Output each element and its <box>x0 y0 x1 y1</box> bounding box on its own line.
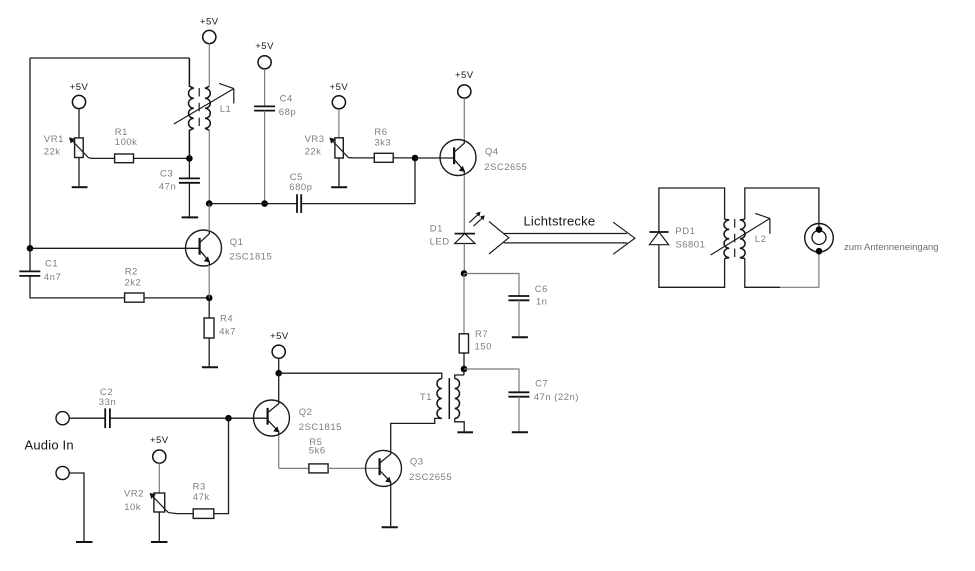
inductor L2 <box>711 213 770 258</box>
capacitor C7 <box>508 392 529 396</box>
svg-text:+5V: +5V <box>255 41 274 52</box>
power +5V VR3 <box>330 82 349 109</box>
svg-text:4n7: 4n7 <box>44 272 61 283</box>
svg-text:T1: T1 <box>420 392 432 403</box>
wire C1 to R2 <box>30 276 125 298</box>
svg-text:zum Antenneneingang: zum Antenneneingang <box>844 242 939 253</box>
wire node to C3 <box>188 158 190 178</box>
power +5V L1 <box>200 17 219 44</box>
ground VR3 <box>331 186 347 188</box>
node G LED bottom node <box>461 270 468 277</box>
transistor Q4 <box>440 140 476 176</box>
resistor R4 <box>204 318 214 338</box>
resistor R5 <box>309 464 328 473</box>
wire L1 to collector node <box>208 130 210 203</box>
node I Q2 collector node <box>275 370 282 377</box>
ground VR2 <box>151 541 168 543</box>
resistor R2 <box>125 293 144 302</box>
wire R5 to Q3 base <box>328 467 380 469</box>
resistor R7 <box>459 334 468 353</box>
svg-text:S6801: S6801 <box>675 240 705 251</box>
wire base node to Q2 <box>229 417 268 419</box>
potentiometer VR3 <box>329 138 352 159</box>
wire LED to C6 node <box>463 244 465 274</box>
wire audio lower to ground <box>69 473 84 541</box>
svg-text:+5V: +5V <box>455 70 474 81</box>
transistor Q2 <box>254 400 290 436</box>
wire VR1 to ground <box>78 158 80 187</box>
wire +5V to Q4 collector <box>463 98 465 141</box>
resistor R3 <box>193 509 214 519</box>
svg-text:PD1: PD1 <box>675 226 695 237</box>
wire Q1 emitter <box>208 265 210 298</box>
svg-text:47n (22n): 47n (22n) <box>534 392 579 403</box>
svg-text:VR2: VR2 <box>124 488 144 499</box>
svg-text:100k: 100k <box>115 137 138 148</box>
svg-text:Q4: Q4 <box>485 147 499 158</box>
capacitor C5 <box>297 194 301 213</box>
node B Q1 emitter node <box>206 295 213 302</box>
connector audio lower <box>56 466 69 479</box>
svg-text:68p: 68p <box>279 107 296 118</box>
svg-text:22k: 22k <box>44 147 61 158</box>
wire +5V to L1 <box>208 44 210 87</box>
svg-text:R6: R6 <box>374 127 387 138</box>
power +5V Q4 <box>455 70 474 98</box>
wire C3 to ground <box>188 183 190 217</box>
svg-text:LED: LED <box>430 236 450 247</box>
svg-text:D1: D1 <box>430 224 443 235</box>
wire T1 secondary top <box>463 369 465 375</box>
photodiode loop rectangle <box>659 188 725 287</box>
wire node to C1 <box>29 248 31 271</box>
node A Q1 base node <box>27 245 34 252</box>
wire node to R7 <box>463 274 465 334</box>
connector audio upper <box>56 412 69 425</box>
resistor R1 <box>115 154 134 163</box>
wire feedback loop left <box>29 58 31 248</box>
lichtstrecke arrow <box>489 214 635 255</box>
svg-text:2k2: 2k2 <box>125 277 142 288</box>
wire Q4 emitter to LED <box>463 175 465 234</box>
svg-text:+5V: +5V <box>70 82 89 93</box>
wire R4 to ground <box>208 338 210 366</box>
wire C2 to Q2 base node <box>110 417 229 419</box>
wire Q2 emitter to R5 <box>279 435 309 468</box>
svg-text:R4: R4 <box>220 314 233 325</box>
wire emitter node to R4 <box>208 298 210 318</box>
wire Q1 collector <box>208 204 210 231</box>
wire VR3 to ground <box>338 158 340 186</box>
svg-text:VR1: VR1 <box>44 134 64 145</box>
wire VR2 to ground <box>158 512 160 541</box>
svg-text:150: 150 <box>475 342 492 353</box>
svg-text:680p: 680p <box>289 182 312 193</box>
ground VR1 <box>72 186 88 188</box>
wire Q1 base <box>30 247 200 249</box>
antenna loop rectangle <box>745 188 819 287</box>
wire feedback loop top <box>30 57 189 59</box>
power +5V C4 <box>255 41 274 69</box>
inductor L1 <box>174 58 234 158</box>
wire R6 to Q4 base node <box>393 157 415 159</box>
connector antenna <box>805 224 834 255</box>
wire Q3 emitter to ground <box>390 486 392 527</box>
node C tank node <box>186 155 193 162</box>
potentiometer VR1 <box>69 137 92 158</box>
svg-text:Audio In: Audio In <box>25 438 74 453</box>
svg-text:C7: C7 <box>535 379 548 390</box>
potentiometer VR2 <box>150 493 177 514</box>
svg-text:Q3: Q3 <box>410 457 424 468</box>
wire VR1 wiper to R1 <box>91 157 115 159</box>
wire base node down to R3 <box>214 418 229 513</box>
svg-text:C1: C1 <box>45 258 58 269</box>
svg-text:+5V: +5V <box>270 331 289 342</box>
capacitor C6 <box>508 296 529 300</box>
svg-text:VR3: VR3 <box>305 134 325 145</box>
node E C4 node <box>261 200 268 207</box>
ground C3 <box>182 216 199 218</box>
svg-text:10k: 10k <box>124 502 141 513</box>
node D collector node <box>206 200 213 207</box>
node H T1 secondary node <box>461 366 468 373</box>
node F Q4 base node <box>412 155 419 162</box>
wire +5V to VR1 <box>78 109 80 138</box>
power +5V VR2 <box>150 435 169 463</box>
wire base node to Q4 <box>415 157 454 159</box>
transistor Q3 <box>366 450 402 486</box>
svg-text:Q2: Q2 <box>299 407 313 418</box>
ground T1 secondary <box>457 431 473 433</box>
wire VR3 wiper to R6 <box>351 157 374 159</box>
svg-text:+5V: +5V <box>200 17 219 28</box>
svg-text:C3: C3 <box>160 169 173 180</box>
wire node to C6 <box>464 274 519 296</box>
power +5V VR1 <box>70 82 89 109</box>
svg-text:L2: L2 <box>755 234 767 245</box>
capacitor C1 <box>19 271 40 276</box>
wire C6 to ground <box>518 300 520 336</box>
wire +5V to VR3 <box>338 109 340 138</box>
ground Q3 <box>382 526 398 528</box>
resistor R6 <box>374 153 393 162</box>
svg-text:2SC2655: 2SC2655 <box>409 472 452 483</box>
svg-text:1n: 1n <box>536 296 548 307</box>
wire node to C7 <box>464 369 519 392</box>
wire C4 to collector node <box>264 111 266 204</box>
svg-text:+5V: +5V <box>150 435 169 446</box>
svg-text:2SC2655: 2SC2655 <box>484 162 527 173</box>
diode D1 LED <box>455 212 485 244</box>
svg-text:4k7: 4k7 <box>219 327 236 338</box>
wire +5V to VR2 <box>158 463 160 493</box>
node J Q2 base node <box>225 415 232 422</box>
power +5V Q2 <box>270 331 289 358</box>
svg-text:L1: L1 <box>220 104 232 115</box>
svg-text:22k: 22k <box>305 146 322 157</box>
wire +5V to Q2 node <box>278 358 280 373</box>
svg-text:R7: R7 <box>475 329 488 340</box>
svg-text:33n: 33n <box>99 397 116 408</box>
svg-text:3k3: 3k3 <box>374 138 391 149</box>
ground R4 <box>202 366 218 368</box>
svg-text:47n: 47n <box>159 182 176 193</box>
wire R3 to VR2 wiper <box>177 513 193 515</box>
wire R7 to T1 node <box>463 353 465 369</box>
ground C7 <box>512 431 528 433</box>
wire R2 to emitter node <box>144 297 209 299</box>
wire C5 to Q4 base riser <box>301 158 415 204</box>
svg-text:C6: C6 <box>535 284 548 295</box>
wire collector node to C5 <box>209 203 297 205</box>
transformer T1 <box>437 375 464 431</box>
svg-text:2SC1815: 2SC1815 <box>229 252 272 263</box>
wire R1 to tank node <box>134 157 190 159</box>
transistor Q1 <box>186 230 222 266</box>
svg-text:R2: R2 <box>125 267 138 278</box>
ground C6 <box>512 336 528 338</box>
svg-text:C4: C4 <box>280 94 293 105</box>
wire audio to C2 <box>69 417 105 419</box>
capacitor C3 <box>179 178 200 182</box>
wire +5V to C4 <box>264 69 266 106</box>
ground audio <box>76 541 93 543</box>
wire Q2 collector <box>278 373 280 401</box>
svg-text:Lichtstrecke: Lichtstrecke <box>524 214 596 229</box>
svg-text:47k: 47k <box>193 492 210 503</box>
svg-text:R1: R1 <box>115 127 128 138</box>
wire node to T1 primary top <box>279 373 442 378</box>
svg-text:+5V: +5V <box>330 82 349 93</box>
svg-text:5k6: 5k6 <box>309 446 326 457</box>
capacitor C2 <box>105 408 110 428</box>
svg-text:2SC1815: 2SC1815 <box>299 422 342 433</box>
photodiode PD1 <box>649 232 668 245</box>
wire Q3 collector to T1 primary bottom <box>391 418 442 451</box>
capacitor C4 <box>254 106 275 110</box>
wire C7 to ground <box>518 397 520 432</box>
svg-text:Q1: Q1 <box>230 237 244 248</box>
